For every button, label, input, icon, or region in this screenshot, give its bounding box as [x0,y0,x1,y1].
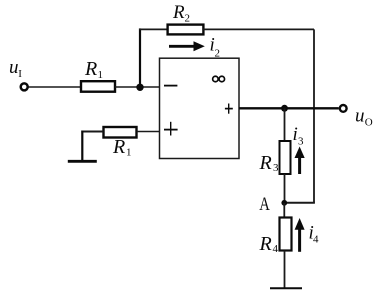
svg-text:3: 3 [273,162,279,174]
op-amp U1 (box style) [160,58,240,158]
wire op-amp output to terminal [239,107,339,109]
svg-text:A: A [259,194,270,215]
resistor R2 [168,25,204,35]
wire feedback vertical down to node A level [313,29,315,202]
current arrow i2 [169,41,205,51]
svg-text:1: 1 [126,147,132,159]
wire input uI to R1 [29,86,81,88]
ground (bottom) [270,287,302,289]
wire corner down to ground [81,131,83,162]
svg-text:R: R [259,152,272,174]
current arrow i3 [295,147,305,175]
svg-text:2: 2 [185,13,191,25]
svg-text:R: R [84,58,97,80]
wire R1 to inverting input [115,86,160,88]
resistor R1 (top) [81,81,115,92]
resistor R1 (bottom, to ground) [104,127,137,138]
svg-text:1: 1 [98,69,104,81]
wire R4 to ground [284,251,286,288]
wire output junction down to R3 [284,108,286,140]
wire R1 bottom to + input [137,131,160,133]
current arrow i4 [295,218,305,252]
svg-text:u: u [9,57,19,78]
resistor R4 [280,218,292,251]
resistor R3 [280,141,291,174]
svg-text:R: R [259,233,272,255]
ground (left) [68,160,97,163]
wire node A to R4 [283,203,285,218]
node A dot [281,200,287,206]
input terminal uI [21,83,28,90]
wire junction up to R2 [139,28,141,87]
node junction dot at output [281,105,288,112]
wire feedback horizontal into node A [284,202,315,204]
wire R2 right to feedback drop [203,28,314,30]
svg-text:R: R [112,136,125,158]
op-amp infinity gain symbol [213,76,225,82]
wire R3 to node A [284,174,286,203]
svg-text:4: 4 [313,234,319,246]
svg-text:4: 4 [273,243,279,255]
wire R1 bottom left to corner [81,131,103,133]
svg-text:u: u [355,106,365,127]
svg-text:3: 3 [298,136,304,148]
op-amp output polarity marker [225,104,233,114]
svg-text:O: O [365,117,373,129]
svg-text:R: R [172,2,185,23]
svg-text:I: I [18,68,22,80]
op-amp inverting input marker [164,85,177,87]
wire top to R2 left [139,28,168,30]
output terminal uO [340,105,347,112]
svg-text:i: i [293,124,298,145]
op-amp noninverting input marker [164,122,178,136]
node junction dot at inverting input [136,84,143,91]
